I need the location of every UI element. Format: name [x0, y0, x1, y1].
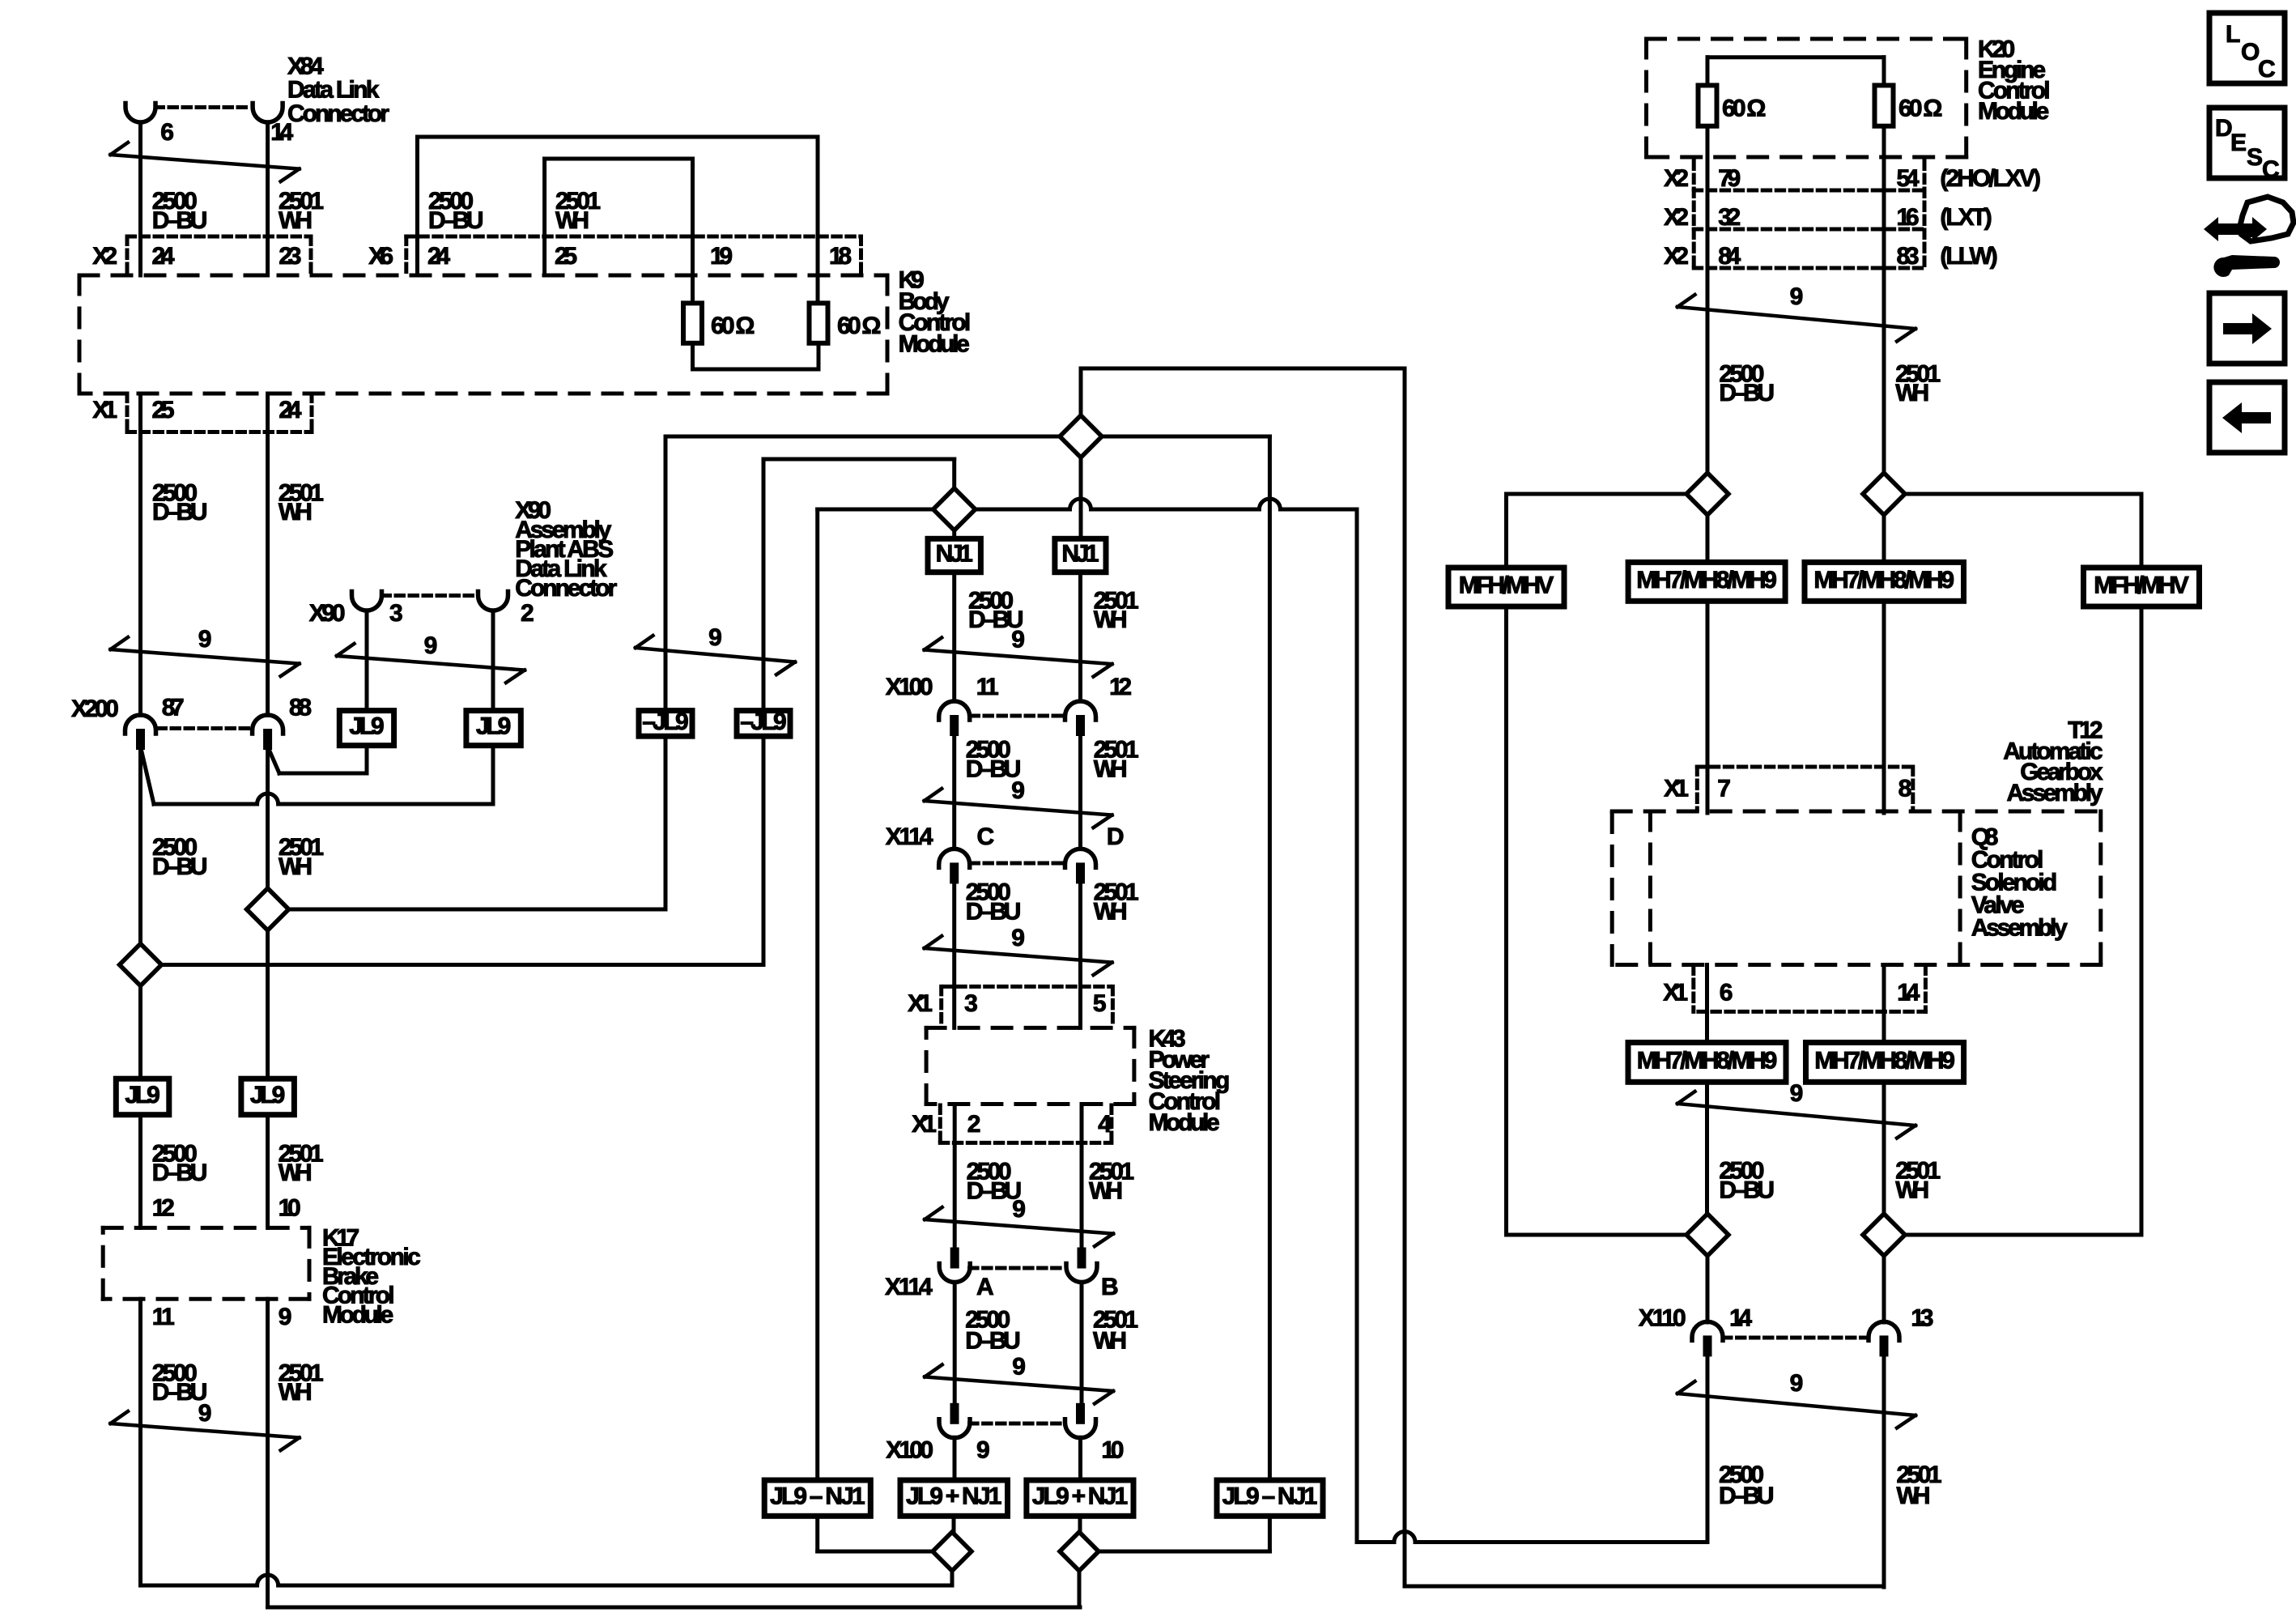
- wire X110 down: [1706, 1356, 1710, 1543]
- svg-text:WH: WH: [1094, 756, 1128, 783]
- svg-text:JL9 + NJ1: JL9 + NJ1: [906, 1483, 1001, 1510]
- connector X100 pin 11: [939, 701, 970, 720]
- option box JL9 + NJ1 left: [900, 1480, 1008, 1516]
- svg-text:25: 25: [555, 243, 577, 270]
- wire X114 to K43: [952, 883, 956, 1028]
- wire diamond to MH7: [1706, 515, 1710, 562]
- svg-text:JL9: JL9: [349, 713, 384, 740]
- long vertical 2500 D-BU: [1355, 509, 1359, 1543]
- wire to JL9: [266, 930, 270, 1079]
- svg-text:D–BU: D–BU: [1719, 1177, 1775, 1204]
- splice diamond 2500: [120, 944, 162, 986]
- svg-text:14: 14: [1897, 980, 1920, 1006]
- option box JL9 (X90-2): [466, 711, 521, 746]
- T12 inner partition: [1648, 811, 1652, 965]
- wire diamond to NJ1 right: [1079, 457, 1083, 538]
- twisted pair slash: [111, 1423, 300, 1438]
- svg-text:87: 87: [162, 694, 185, 721]
- twisted pair slash: [925, 1377, 1113, 1391]
- svg-text:9: 9: [198, 626, 212, 653]
- wire diamond to NJ1 left: [952, 530, 956, 538]
- option box MH7/MH8/MH9: [1628, 562, 1785, 601]
- twisted pair slash: [925, 801, 1112, 815]
- option box MH7/MH8/MH9: [1805, 562, 1964, 601]
- wire K43 to X114 A: [953, 1104, 957, 1248]
- connector X100 pin 9: [950, 1403, 959, 1424]
- svg-text:WH: WH: [1895, 1177, 1929, 1204]
- svg-text:WH: WH: [1895, 380, 1929, 406]
- top bus 2501 WH: [665, 435, 1060, 439]
- svg-text:C: C: [2262, 156, 2280, 183]
- wire to JL9: [138, 985, 142, 1079]
- svg-text:WH: WH: [1093, 1327, 1127, 1354]
- riser below JL9-NJ1 left: [815, 1516, 819, 1551]
- connector X114 pin D: [1065, 849, 1096, 867]
- svg-text:12: 12: [1109, 674, 1132, 700]
- icon LOC box: [2209, 13, 2285, 83]
- wire X114 to X100: [953, 1283, 957, 1403]
- svg-text:14: 14: [270, 119, 293, 146]
- option box MFH/MHV left: [1448, 568, 1564, 606]
- svg-text:18: 18: [829, 243, 852, 270]
- twisted pair slash: [636, 648, 795, 662]
- connector X90 dashed link: [382, 594, 478, 598]
- riser -JL9 right (2500 D-BU): [762, 459, 766, 711]
- option box JL9 - NJ1 right: [1217, 1480, 1323, 1516]
- option box JL9 - NJ1 left: [764, 1480, 870, 1516]
- svg-text:X2: X2: [1664, 204, 1689, 231]
- connector X110 pin 14: [1692, 1321, 1723, 1340]
- svg-text:10: 10: [1101, 1437, 1124, 1464]
- svg-text:JL9: JL9: [250, 1082, 285, 1108]
- svg-text:D–BU: D–BU: [965, 1327, 1021, 1354]
- svg-text:WH: WH: [1089, 1177, 1123, 1204]
- option box -JL9 right: [737, 711, 790, 737]
- option box NJ1 left: [928, 538, 980, 572]
- svg-text:O: O: [2241, 39, 2260, 66]
- svg-text:5: 5: [1093, 990, 1107, 1017]
- svg-text:Module: Module: [322, 1302, 393, 1329]
- svg-text:B: B: [1101, 1274, 1119, 1300]
- wire resistor loop: [1706, 57, 1710, 86]
- option box JL9 right: [241, 1079, 295, 1115]
- X100 dashed link: [971, 714, 1064, 718]
- wire X100 to X114: [952, 736, 956, 849]
- upper bus 2501 WH: [1081, 367, 1405, 371]
- bus link: [763, 457, 955, 462]
- svg-text:6: 6: [1720, 980, 1733, 1006]
- svg-text:9: 9: [198, 1400, 212, 1427]
- svg-text:25: 25: [152, 397, 175, 423]
- svg-text:9: 9: [1011, 627, 1025, 653]
- svg-text:(LLW): (LLW): [1940, 243, 1997, 270]
- svg-text:X1: X1: [908, 990, 933, 1017]
- svg-text:MH7/MH8/MH9: MH7/MH8/MH9: [1814, 1047, 1955, 1074]
- svg-text:54: 54: [1897, 165, 1920, 192]
- svg-text:11: 11: [152, 1304, 175, 1330]
- svg-text:A: A: [976, 1274, 994, 1300]
- connector X200 dashed link: [158, 726, 251, 730]
- svg-text:9: 9: [1012, 1196, 1026, 1223]
- connector X200 pin 87: [125, 715, 156, 734]
- splice diamond bottom left: [933, 1532, 972, 1571]
- svg-text:79: 79: [1718, 165, 1741, 192]
- svg-text:4: 4: [1098, 1111, 1112, 1138]
- svg-text:Assembly: Assembly: [1971, 914, 2068, 941]
- svg-text:24: 24: [278, 397, 301, 423]
- bottom WH return: [1405, 1585, 1884, 1589]
- svg-text:(2HO/LXV): (2HO/LXV): [1940, 165, 2041, 192]
- twisted pair slash: [111, 155, 300, 169]
- connector X84 pin 14: [253, 104, 283, 123]
- splice diamond 2500 (NJ1): [933, 488, 976, 530]
- svg-text:L: L: [2226, 21, 2240, 48]
- svg-text:2: 2: [521, 600, 534, 627]
- wire MH7 to diamonds: [1705, 1082, 1709, 1214]
- wire X100-9 to option: [953, 1437, 957, 1480]
- svg-text:D–BU: D–BU: [1719, 380, 1775, 406]
- twisted pair slash: [925, 948, 1112, 963]
- connector X84 dashed link: [155, 105, 252, 109]
- jumper X200-87 to JL9/X90-2: [141, 747, 155, 804]
- svg-text:NJ1: NJ1: [1061, 541, 1099, 568]
- wire X90-2 down: [491, 611, 495, 711]
- svg-text:12: 12: [152, 1195, 175, 1222]
- svg-text:11: 11: [976, 674, 999, 700]
- wire diamond to X110: [1706, 1256, 1710, 1322]
- X114 dashed link: [971, 862, 1064, 866]
- svg-text:WH: WH: [278, 207, 313, 234]
- svg-text:WH: WH: [278, 853, 313, 880]
- svg-text:60 Ω: 60 Ω: [837, 313, 881, 339]
- svg-text:24: 24: [152, 243, 175, 270]
- svg-text:D–BU: D–BU: [966, 899, 1022, 926]
- wire K43 to X114 B: [1080, 1104, 1084, 1248]
- svg-text:23: 23: [278, 243, 301, 270]
- wh link to splice: [289, 908, 665, 912]
- connector X114 pin B: [1078, 1248, 1086, 1269]
- wire NJ1 to X100: [1078, 572, 1082, 701]
- resistor 60 ohm left: [683, 303, 702, 343]
- connector X90 pin 2: [478, 592, 508, 611]
- wire JL9 to K17: [138, 1115, 142, 1228]
- svg-text:MH7/MH8/MH9: MH7/MH8/MH9: [1813, 567, 1954, 594]
- connector X6 row: [406, 235, 861, 239]
- svg-text:D–BU: D–BU: [152, 207, 208, 234]
- connector X2 rows: [1692, 161, 1696, 268]
- svg-text:9: 9: [1011, 777, 1025, 804]
- twisted pair slash: [111, 649, 300, 664]
- splice diamond 2501: [247, 888, 289, 930]
- svg-text:JL9 – NJ1: JL9 – NJ1: [1222, 1483, 1318, 1510]
- connector X200 pin 88: [253, 715, 283, 734]
- svg-text:D–BU: D–BU: [1719, 1483, 1775, 1509]
- twisted pair slash: [925, 650, 1112, 665]
- link diamond to JL9-NJ1 right riser: [1102, 435, 1269, 439]
- connector X84 pin 6: [125, 104, 155, 123]
- icon DESC box: [2209, 108, 2285, 178]
- svg-text:16: 16: [1897, 204, 1920, 231]
- wire K17-11 down: [138, 1299, 142, 1585]
- svg-text:MFH/MHV: MFH/MHV: [2094, 572, 2189, 599]
- option box MFH/MHV right: [2084, 568, 2200, 606]
- wire X90-3 down: [365, 611, 369, 711]
- twisted pair slash: [337, 656, 525, 670]
- connector X1 7/8 row: [1697, 765, 1913, 769]
- wire NJ1 to X100: [952, 572, 956, 701]
- svg-text:X100: X100: [886, 674, 933, 700]
- twisted pair slash: [1677, 307, 1915, 329]
- wire X114 to X100: [1080, 1283, 1084, 1403]
- connector X1 row (K43 top): [944, 985, 1111, 989]
- wire T12 to MH7: [1705, 965, 1709, 1043]
- svg-text:X114: X114: [885, 1274, 933, 1300]
- option box NJ1 right: [1055, 538, 1106, 572]
- svg-text:19: 19: [710, 243, 733, 270]
- option box JL9 + NJ1 right: [1027, 1480, 1133, 1516]
- splice diamond bottom right: [1863, 1214, 1905, 1256]
- splice diamond 2501 top: [1060, 415, 1102, 457]
- svg-text:D–BU: D–BU: [428, 207, 484, 234]
- svg-text:X6: X6: [368, 243, 393, 270]
- svg-text:MFH/MHV: MFH/MHV: [1459, 572, 1554, 599]
- twisted pair slash: [1677, 1104, 1915, 1126]
- wire 2501 WH from X84-14: [266, 122, 270, 275]
- svg-text:3: 3: [964, 990, 978, 1017]
- link MFH/MHV left riser: [1504, 606, 1508, 1235]
- svg-text:X2: X2: [1664, 165, 1689, 192]
- resistor 60 ohm right: [810, 303, 828, 343]
- module K17 box: [103, 1226, 309, 1230]
- wire box to splice: [952, 1516, 956, 1532]
- wire X100-10 to option: [1078, 1437, 1082, 1480]
- svg-text:WH: WH: [278, 1160, 313, 1186]
- svg-text:X114: X114: [886, 823, 933, 850]
- svg-text:8: 8: [1898, 776, 1912, 802]
- svg-text:3: 3: [389, 600, 403, 627]
- svg-text:7: 7: [1717, 776, 1731, 802]
- svg-text:X2: X2: [92, 243, 117, 270]
- wire diamond to bus: [1078, 1571, 1082, 1607]
- svg-text:9: 9: [1790, 283, 1804, 310]
- module K20 box: [1647, 37, 1966, 41]
- wire box to splice: [1078, 1516, 1082, 1532]
- module T12 box: [1612, 810, 2101, 814]
- svg-text:60 Ω: 60 Ω: [1898, 96, 1942, 122]
- svg-text:JL9 + NJ1: JL9 + NJ1: [1032, 1483, 1128, 1510]
- splice diamond bottom right: [1060, 1532, 1099, 1571]
- svg-text:NJ1: NJ1: [936, 541, 973, 568]
- svg-text:X1: X1: [1664, 776, 1689, 802]
- riser JL9-NJ1 left: [815, 509, 819, 1480]
- svg-text:9: 9: [708, 624, 722, 651]
- dbu link to splice: [162, 963, 764, 967]
- svg-text:JL9 – NJ1: JL9 – NJ1: [770, 1483, 865, 1510]
- svg-text:Module: Module: [899, 330, 970, 357]
- svg-text:14: 14: [1729, 1304, 1752, 1331]
- wire JL9 to K17: [266, 1115, 270, 1228]
- svg-text:X84: X84: [287, 53, 324, 79]
- twisted pair slash: [1677, 1394, 1915, 1415]
- riser JL9-NJ1 right: [1268, 436, 1272, 1480]
- X100 dashed link: [970, 1422, 1062, 1426]
- X110 dashed link: [1724, 1336, 1869, 1340]
- svg-text:C: C: [977, 823, 995, 850]
- svg-text:9: 9: [278, 1304, 292, 1330]
- svg-text:MH7/MH8/MH9: MH7/MH8/MH9: [1637, 1047, 1778, 1074]
- connector X100 pin 10: [1076, 1403, 1085, 1424]
- icon connector-view with wrench: [2204, 217, 2267, 241]
- svg-text:Connector: Connector: [287, 100, 389, 127]
- link MFH/MHV right riser: [2140, 606, 2144, 1235]
- connector X100 pin 12: [1065, 701, 1096, 720]
- riser -JL9 left (2501 WH): [664, 436, 668, 711]
- option box MH7/MH8/MH9: [1806, 1043, 1964, 1083]
- svg-text:9: 9: [1790, 1370, 1804, 1397]
- twisted pair slash: [925, 1219, 1113, 1234]
- wire 2500 D-BU K9 to X200: [138, 394, 142, 715]
- svg-text:X110: X110: [1639, 1304, 1686, 1331]
- wire loop X6-25 to 19: [542, 159, 546, 275]
- wire X114 to K43: [1078, 883, 1082, 1028]
- svg-text:E: E: [2230, 130, 2247, 156]
- svg-text:X100: X100: [886, 1437, 933, 1464]
- resistor 60 ohm left: [1699, 85, 1717, 126]
- jumper X200-88 to JL9/X90-3: [268, 747, 279, 773]
- top bus 2500 D-BU with hops: [818, 508, 933, 512]
- svg-text:X1: X1: [1663, 980, 1688, 1006]
- splice diamond right: [1863, 473, 1905, 515]
- connector X90 pin 3: [352, 592, 382, 611]
- wire diamond to bus: [950, 1571, 955, 1585]
- svg-text:Data Link: Data Link: [287, 77, 380, 104]
- svg-text:60 Ω: 60 Ω: [1722, 96, 1766, 122]
- svg-text:WH: WH: [1094, 899, 1128, 926]
- wire 2501 WH K9 to X200: [266, 394, 270, 715]
- option box MH7/MH8/MH9: [1628, 1043, 1786, 1083]
- icon forward arrow box: [2209, 293, 2285, 364]
- svg-text:2: 2: [967, 1111, 981, 1138]
- option box JL9 (X90-3): [339, 711, 393, 746]
- connector X1 row (K43 bottom): [938, 1105, 942, 1143]
- svg-text:X1: X1: [912, 1111, 937, 1138]
- bottom D-BU return: [1357, 1532, 1707, 1543]
- svg-text:60 Ω: 60 Ω: [711, 313, 755, 339]
- svg-text:S: S: [2247, 144, 2263, 171]
- svg-text:WH: WH: [1897, 1483, 1931, 1509]
- option box JL9 left: [116, 1079, 169, 1115]
- svg-text:Assembly: Assembly: [2007, 780, 2103, 806]
- connector X114 pin C: [939, 849, 970, 867]
- connector X1 row (K9): [125, 394, 130, 432]
- wire 2500 D-BU from X84-6: [138, 122, 142, 275]
- long vertical 2501 WH: [1403, 368, 1407, 1586]
- wire resistor bottoms: [691, 343, 695, 369]
- wire loop X6-24 to 18: [415, 137, 419, 275]
- svg-text:X200: X200: [71, 696, 119, 722]
- bottom bus 2501 WH: [268, 1606, 1080, 1610]
- svg-text:24: 24: [427, 243, 450, 270]
- module K43 box: [926, 1026, 1134, 1030]
- splice diamond bottom left: [1686, 1214, 1728, 1256]
- X114 dashed link: [970, 1266, 1062, 1270]
- wire 2501 WH X200 to splice: [266, 749, 270, 890]
- svg-text:9: 9: [1790, 1080, 1804, 1107]
- riser to diamond: [1079, 368, 1083, 415]
- svg-text:X1: X1: [92, 397, 117, 423]
- svg-text:13: 13: [1911, 1304, 1933, 1331]
- svg-text:MH7/MH8/MH9: MH7/MH8/MH9: [1636, 567, 1777, 594]
- svg-text:D–BU: D–BU: [152, 853, 208, 880]
- module K9 box: [79, 274, 887, 278]
- wire K17-9 down: [266, 1299, 270, 1607]
- svg-text:88: 88: [289, 694, 312, 721]
- svg-text:83: 83: [1897, 243, 1920, 270]
- connector X1 6/14 row: [1691, 966, 1695, 1011]
- resistor 60 ohm right: [1875, 85, 1894, 126]
- wire MH7 to T12: [1706, 601, 1710, 813]
- option box -JL9 left: [639, 711, 692, 737]
- svg-text:Module: Module: [1149, 1109, 1220, 1136]
- connector X110 pin 13: [1869, 1321, 1899, 1340]
- svg-text:JL9: JL9: [476, 713, 511, 740]
- connector X114 pin A: [950, 1248, 959, 1269]
- bottom bus 2500 D-BU: [141, 1575, 953, 1585]
- svg-text:9: 9: [424, 632, 438, 659]
- icon back arrow box: [2209, 382, 2285, 453]
- svg-text:D–BU: D–BU: [152, 499, 208, 526]
- svg-text:C: C: [2258, 56, 2276, 83]
- wire X100 to X114: [1078, 736, 1082, 849]
- wire resistor to rows: [1706, 126, 1710, 473]
- svg-text:X2: X2: [1664, 243, 1689, 270]
- svg-text:9: 9: [1012, 1353, 1026, 1380]
- connector X2 row: [127, 235, 311, 239]
- svg-text:10: 10: [278, 1195, 301, 1222]
- svg-text:D: D: [1107, 823, 1125, 850]
- svg-text:9: 9: [976, 1437, 990, 1464]
- link to MFH/MHV left: [1507, 492, 1687, 496]
- svg-text:WH: WH: [555, 207, 589, 234]
- svg-text:WH: WH: [278, 1379, 313, 1406]
- link to MFH/MHV right: [1905, 492, 2141, 496]
- svg-text:JL9: JL9: [125, 1082, 159, 1108]
- svg-text:84: 84: [1718, 243, 1741, 270]
- svg-text:D–BU: D–BU: [152, 1160, 208, 1186]
- svg-text:Module: Module: [1978, 98, 2049, 125]
- riser below JL9-NJ1 right: [1268, 1516, 1272, 1551]
- svg-text:9: 9: [1011, 925, 1025, 951]
- svg-text:X90: X90: [309, 600, 346, 627]
- svg-text:(LXT): (LXT): [1940, 204, 1992, 231]
- svg-text:6: 6: [160, 119, 174, 146]
- splice diamond left: [1686, 473, 1728, 515]
- svg-text:32: 32: [1718, 204, 1741, 231]
- svg-text:WH: WH: [278, 499, 313, 526]
- svg-text:WH: WH: [1094, 606, 1128, 633]
- wire 2500 D-BU X200 to splice: [138, 749, 142, 945]
- svg-text:Connector: Connector: [515, 575, 617, 602]
